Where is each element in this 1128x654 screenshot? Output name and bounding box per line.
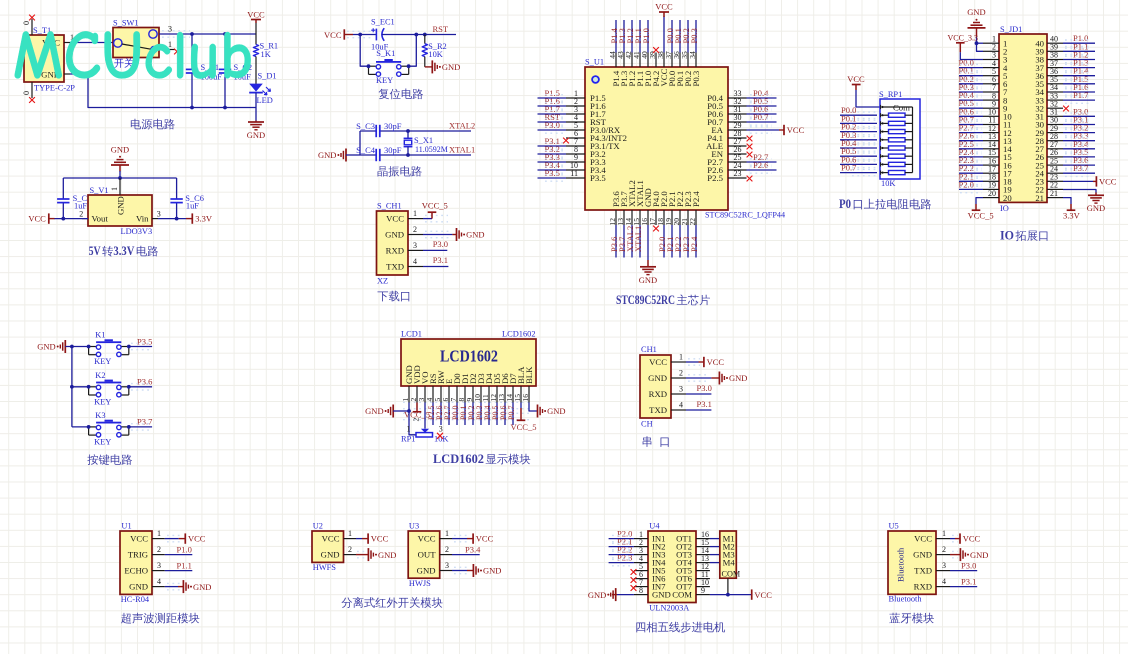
svg-text:2: 2 <box>413 225 417 234</box>
svg-text:P0: P0 <box>839 197 851 211</box>
capacitor S_C5 1uF <box>57 178 91 219</box>
pin 2 Vout <box>79 210 88 219</box>
svg-text:P2.4: P2.4 <box>689 236 699 252</box>
wire gnd to caps <box>346 154 360 156</box>
wire net P0.0 <box>959 67 983 69</box>
wire down to key left <box>360 35 368 67</box>
svg-text:VCC: VCC <box>963 534 981 544</box>
svg-text:3: 3 <box>168 25 172 34</box>
wire net P0.5 <box>959 107 983 109</box>
svg-text:VCC_5: VCC_5 <box>968 210 994 220</box>
svg-text:STC89C52RC: STC89C52RC <box>616 293 675 307</box>
svg-text:VCC: VCC <box>386 214 404 224</box>
pin 43 P1.3 top <box>616 20 629 87</box>
pin 2 TRIG of U1 <box>152 545 165 555</box>
pin 15 OT2 of U4 <box>696 538 710 547</box>
svg-text:LCD1: LCD1 <box>401 330 422 339</box>
wire K3 to net P3.7 <box>129 426 152 428</box>
pin 19 P2.1 bottom <box>664 191 677 257</box>
wire pin4 to GND <box>165 586 178 588</box>
svg-text:Vin: Vin <box>136 214 149 224</box>
pin 32 of S_JD1 <box>1047 99 1063 108</box>
wire net P0.4 <box>959 99 983 101</box>
pin 1 VCC of XZ <box>408 209 448 222</box>
power ground GND bottom of chip <box>639 260 657 285</box>
power port VCC_3.3 to pin 3 <box>948 34 978 53</box>
svg-text:U4: U4 <box>649 522 660 531</box>
svg-text:1: 1 <box>407 425 411 434</box>
pin 7 P3.1/TX left <box>538 136 621 151</box>
wire net P0.5 <box>496 403 498 426</box>
pin 27 ALE right <box>706 137 746 151</box>
wire net P1.3 <box>1063 67 1095 69</box>
svg-text:10K: 10K <box>434 435 448 444</box>
svg-text:S_C3: S_C3 <box>356 121 375 131</box>
svg-text:S_SW1: S_SW1 <box>113 19 139 28</box>
resistor S_R2 10K <box>422 35 447 67</box>
potentiometer RP1 10K <box>401 411 448 444</box>
wire net P0.6 to RP1 <box>840 163 877 165</box>
pin 5 P3.0/RX left <box>538 120 621 135</box>
pin 27 of S_JD1 <box>1047 140 1063 149</box>
wire VCC_3.3 to pin3 <box>960 52 983 59</box>
pin 4 GND of U1 <box>152 577 180 590</box>
capacitor S_C1 100uF <box>186 34 222 108</box>
connector M motor header <box>720 531 741 579</box>
signal ground GND of R2 <box>425 60 461 73</box>
pin 26 of S_JD1 <box>1047 148 1063 157</box>
resistor S_R1 1K <box>253 42 278 60</box>
pin 2 P1.6 left <box>538 96 607 111</box>
svg-text:VCC: VCC <box>324 30 342 40</box>
svg-text:VCC: VCC <box>1099 176 1117 186</box>
svg-text:1: 1 <box>942 529 946 538</box>
signal ground GND U2 <box>368 548 396 561</box>
pin 2 GND of U5 <box>936 545 958 558</box>
svg-text:P0.7: P0.7 <box>753 112 768 122</box>
pin 11 P3.5 left <box>538 168 606 183</box>
svg-text:VCC: VCC <box>371 534 389 544</box>
svg-text:STC89C52RC_LQFP44: STC89C52RC_LQFP44 <box>705 211 785 220</box>
wire net P0.2 to RP1 <box>840 131 877 133</box>
power port VCC_5 pin2 <box>404 403 430 420</box>
no-connect X on S_T1 top pin <box>29 15 35 21</box>
wire pin3 to GND <box>452 570 467 572</box>
pin 16 GND bottom <box>640 188 653 260</box>
signal ground GND keys <box>37 340 65 353</box>
pin 32 P0.5 right <box>707 96 776 111</box>
svg-text:2: 2 <box>411 418 420 422</box>
svg-text:GND: GND <box>193 582 211 592</box>
wire pin3 net P3.0 <box>686 393 711 395</box>
pin 24 P2.6 right <box>707 160 776 175</box>
svg-text:1: 1 <box>413 209 417 218</box>
pin 2 GND of XZ <box>408 225 450 238</box>
svg-text:LCD1602: LCD1602 <box>502 330 536 339</box>
wire EA to VCC <box>750 126 772 128</box>
junctions <box>406 129 410 133</box>
wire LED to ground <box>255 93 257 121</box>
pin 22 of S_JD1 <box>1047 181 1063 190</box>
svg-text:RXD: RXD <box>649 389 667 399</box>
pin 30 P0.7 right <box>707 112 776 127</box>
wire net P2.4 <box>959 156 983 158</box>
pin 3 of S_SW1 wire to VCC rail <box>162 30 190 32</box>
top rail wire <box>63 177 176 179</box>
pin 1 of S_JD1 <box>983 34 999 43</box>
caption 按键电路 <box>87 454 98 465</box>
pin 9 of S_JD1 <box>983 99 999 108</box>
svg-text:P3.7: P3.7 <box>137 417 152 427</box>
svg-text:VCC: VCC <box>847 74 865 84</box>
pin 1 VCC of U5 <box>936 529 958 542</box>
no-connect X pin 6 <box>563 138 569 144</box>
svg-text:VCC: VCC <box>707 357 725 367</box>
wire VCC to RP1 Com <box>856 90 880 107</box>
svg-text:KEY: KEY <box>94 357 111 366</box>
svg-text:10K: 10K <box>881 179 895 188</box>
wire to K1 <box>72 346 89 348</box>
svg-text:1: 1 <box>157 529 161 538</box>
pin 24 of S_JD1 <box>1047 164 1063 173</box>
caption 下载口 <box>377 291 388 301</box>
module U2 HWFS <box>312 522 344 573</box>
capacitor S_EC1 10uF polarized <box>371 18 395 52</box>
svg-text:30pF: 30pF <box>384 145 402 155</box>
connector CH1 CH <box>640 345 671 429</box>
svg-text:11.0592M: 11.0592M <box>415 145 448 154</box>
pin 3 TXD of U5 <box>936 561 950 571</box>
junction <box>358 33 362 37</box>
wire net P0.6 <box>504 403 506 426</box>
power port VCC U2 <box>368 533 389 543</box>
svg-text:1: 1 <box>679 353 683 362</box>
pin 7 IN7 of U4 <box>634 578 648 587</box>
svg-text:P1.0: P1.0 <box>641 28 651 43</box>
pin 39 P4.2 top <box>648 51 661 87</box>
svg-text:CH: CH <box>641 420 653 429</box>
svg-text:3: 3 <box>157 561 161 570</box>
caption 超声波测距模块 <box>121 613 131 624</box>
pin 35 of S_JD1 <box>1047 75 1063 84</box>
pin 23 P2.5 right <box>707 169 746 183</box>
svg-text:1: 1 <box>110 187 119 191</box>
svg-text:S_D1: S_D1 <box>258 72 277 81</box>
svg-text:VCC: VCC <box>322 534 340 544</box>
svg-text:P3.0: P3.0 <box>545 120 560 130</box>
wire to K2 <box>72 386 89 388</box>
wire net P2.6 <box>959 140 983 142</box>
pin 1 P1.5 left <box>538 88 606 103</box>
svg-text:VCC_5: VCC_5 <box>511 422 537 432</box>
svg-text:1K: 1K <box>261 50 271 59</box>
wire net P2.3 <box>609 562 634 564</box>
connector S_JD1 IO <box>999 25 1047 213</box>
svg-text:S_V1: S_V1 <box>90 186 109 195</box>
LED S_D1 <box>249 72 276 106</box>
pin 5 IN5 of U4 <box>634 562 648 571</box>
wire net P0.1 to RP1 <box>840 122 877 124</box>
pin 17 of S_JD1 <box>983 164 999 173</box>
pin 1 VCC of U2 <box>344 529 357 539</box>
svg-text:RST: RST <box>433 24 449 34</box>
crystal S_X1 11.0592M <box>404 131 448 155</box>
svg-text:GND: GND <box>111 144 129 154</box>
pin 8 of S_JD1 <box>983 91 999 100</box>
wire net P0.0 <box>456 403 458 426</box>
power port VCC U1 <box>179 533 206 543</box>
power port 3.3V bottom <box>1063 210 1081 220</box>
caption 电源电路 <box>131 119 141 130</box>
connector S_T1 TYPE-C-2P <box>24 26 75 93</box>
regulator S_V1 LDO3V3 <box>88 186 152 236</box>
pin 5 RW of LCD1 <box>433 386 442 403</box>
wire pin1 to VCC_5 <box>423 218 432 220</box>
pin 3 RXD of CH1 <box>671 385 686 395</box>
wire left vertical <box>359 131 361 155</box>
svg-text:VCC: VCC <box>914 534 932 544</box>
wire net P1.2 <box>1063 59 1095 61</box>
svg-text:VCC: VCC <box>247 10 265 20</box>
svg-text:GND: GND <box>318 150 336 160</box>
wire net P2.3 <box>959 164 983 166</box>
pin 10 OT7 of U4 <box>696 578 710 587</box>
wire gnd to pin1 <box>393 410 409 412</box>
pin 0 bottom of S_T1 <box>22 82 32 98</box>
svg-text:30pF: 30pF <box>384 121 402 131</box>
signal ground GND of XZ <box>457 228 485 241</box>
pin 7 D0 of LCD1 <box>449 386 458 403</box>
pin 13 OT4 of U4 <box>696 554 710 563</box>
wire XTAL2 <box>408 130 471 132</box>
wire Vin to 3.3V <box>158 218 186 220</box>
wire pin3 net P1.1 <box>165 570 193 572</box>
svg-text:LCD1602: LCD1602 <box>440 347 498 366</box>
svg-text:1: 1 <box>445 529 449 538</box>
svg-text:GND: GND <box>648 373 667 383</box>
pin 9 P3.3 left <box>538 152 606 167</box>
pin 8 GND of U4 <box>634 586 648 595</box>
svg-text:Vout: Vout <box>92 214 109 224</box>
svg-text:P1.7: P1.7 <box>1073 90 1088 100</box>
svg-text:RXD: RXD <box>386 245 404 255</box>
wire pin 21 to 3.3V <box>1063 198 1071 204</box>
wire COM bus to VCC <box>710 594 752 596</box>
svg-text:BLK: BLK <box>524 366 534 384</box>
svg-text:CH1: CH1 <box>641 345 657 354</box>
svg-text:23: 23 <box>734 169 742 178</box>
no-connect X pins 5 6 7 <box>631 569 637 575</box>
svg-text:ULN2003A: ULN2003A <box>649 604 689 613</box>
svg-text:5V: 5V <box>89 244 101 258</box>
pin 34 P0.3 top <box>688 20 701 87</box>
svg-text:P1.0: P1.0 <box>177 544 192 554</box>
push button K1 KEY <box>89 331 129 367</box>
svg-text:U2: U2 <box>313 522 323 531</box>
wire net P2.7 <box>959 132 983 134</box>
svg-text:S_X1: S_X1 <box>414 136 433 145</box>
wire net P0.4 to RP1 <box>840 147 877 149</box>
pin 23 of S_JD1 <box>1047 173 1063 182</box>
wire OT4 to motor <box>710 562 720 564</box>
svg-text:20: 20 <box>1003 193 1012 203</box>
pin 18 P2.0 bottom <box>656 191 669 258</box>
svg-text:HWJS: HWJS <box>409 579 431 588</box>
pin 4 of S_JD1 <box>983 59 999 68</box>
signal ground GND serial <box>719 372 747 385</box>
wire net P3.3 <box>1063 140 1095 142</box>
wire net P2.7 <box>448 403 450 426</box>
svg-text:XTAL1: XTAL1 <box>449 145 475 155</box>
wire pin16 BLK to GND <box>529 403 537 412</box>
svg-text:VCC: VCC <box>754 590 772 600</box>
wire pin1 to VCC <box>165 538 179 540</box>
wire pin1 GND down <box>408 403 410 412</box>
svg-text:IO: IO <box>1000 229 1014 243</box>
wire pin2 net P3.4 <box>452 554 480 556</box>
svg-text:GND: GND <box>483 566 501 576</box>
svg-text:RXD: RXD <box>914 582 932 592</box>
wire pin1 to VCC <box>452 538 467 540</box>
svg-text:VCC: VCC <box>787 125 805 135</box>
svg-text:P3.5: P3.5 <box>590 173 606 183</box>
wire net P3.0 <box>1063 115 1095 117</box>
svg-text:TXD: TXD <box>649 405 667 415</box>
wire net P3.2 <box>1063 132 1095 134</box>
svg-text:KEY: KEY <box>94 397 111 406</box>
switch S_SW1 <box>113 19 159 58</box>
svg-text:TXD: TXD <box>386 262 404 272</box>
pin 28 of S_JD1 <box>1047 132 1063 141</box>
pin 1 GND of S_V1 <box>110 178 120 195</box>
wire net P2.6 <box>440 403 442 426</box>
wire OT3 to motor <box>710 554 720 556</box>
pin 12 OT5 of U4 <box>696 562 710 571</box>
svg-text:HC-R04: HC-R04 <box>121 595 150 604</box>
wire pin1 to VCC <box>950 538 955 540</box>
no-connect X pins 28 27 26 23 <box>747 136 753 142</box>
pin 2 VDD of LCD1 <box>409 386 418 403</box>
pin 1 IN1 of U4 <box>634 530 648 539</box>
wire net P3.4 <box>1063 148 1095 150</box>
wire S_T1 pin1 to switch <box>70 42 113 44</box>
pin 20 of S_JD1 <box>983 189 999 198</box>
svg-text:GND: GND <box>37 342 55 352</box>
svg-text:0: 0 <box>22 91 31 95</box>
svg-text:22: 22 <box>688 218 697 226</box>
wire down to key right <box>409 35 417 67</box>
wire net P0.7 to RP1 <box>840 172 877 174</box>
wire net P0.5 to RP1 <box>840 155 877 157</box>
svg-text:GND: GND <box>385 230 404 240</box>
pin 14 of S_JD1 <box>983 140 999 149</box>
pin 1 of S_SW1 stub <box>159 40 175 50</box>
svg-text:LCD1602: LCD1602 <box>433 452 484 466</box>
wire pin1 to VCC <box>686 361 699 363</box>
wire net P2.5 <box>432 403 434 426</box>
wire net P0.7 <box>512 403 514 426</box>
wire gnd bus <box>65 347 72 427</box>
svg-text:GND: GND <box>588 590 606 600</box>
pin 16 of S_JD1 <box>983 156 999 165</box>
svg-text:M4: M4 <box>723 558 736 568</box>
svg-text:4: 4 <box>413 257 417 266</box>
wire net P3.5 <box>1063 156 1095 158</box>
label 开关 for S_SW1 <box>114 59 123 68</box>
svg-text:2: 2 <box>679 369 683 378</box>
pin 33 of S_JD1 <box>1047 91 1063 100</box>
ic LCD1 LCD1602 display <box>401 330 536 387</box>
pin 44 P1.4 top <box>608 20 621 87</box>
wire net P0.1 <box>959 75 983 77</box>
pin 39 of S_JD1 <box>1047 43 1063 52</box>
wire net P1.4 <box>1063 75 1095 77</box>
wire net P0.6 <box>959 115 983 117</box>
pin 42 P1.2 top <box>624 20 637 87</box>
svg-text:3.3V: 3.3V <box>195 214 213 224</box>
wire net P1.5 <box>1063 83 1095 85</box>
pin 9 D2 of LCD1 <box>465 386 474 403</box>
svg-text:11: 11 <box>570 169 578 178</box>
pin 29 EA right <box>711 121 746 135</box>
pin 38 VCC top <box>656 16 669 87</box>
wire pin3 net P3.0 <box>423 249 447 251</box>
svg-text:VCC: VCC <box>28 214 46 224</box>
pin 30 of S_JD1 <box>1047 116 1063 125</box>
pin 12 D5 of LCD1 <box>489 386 498 403</box>
no-connect X pin 17 <box>653 226 659 232</box>
pin 11 OT6 of U4 <box>696 570 710 579</box>
pin 16 OT1 of U4 <box>696 530 710 539</box>
svg-text:S_C4: S_C4 <box>356 145 376 155</box>
svg-text:P2.0: P2.0 <box>959 179 974 189</box>
svg-text:U5: U5 <box>889 522 899 531</box>
svg-text:3: 3 <box>942 561 946 570</box>
svg-text:2: 2 <box>79 210 83 219</box>
pin 33 P0.4 right <box>707 88 776 103</box>
pin 12 of S_JD1 <box>983 124 999 133</box>
wire XTAL1 <box>408 154 471 156</box>
junction dots power rail <box>190 32 194 36</box>
wire net P3.1 <box>1063 124 1095 126</box>
svg-text:1: 1 <box>168 40 172 49</box>
svg-text:1uF: 1uF <box>186 202 199 211</box>
svg-text:K1: K1 <box>95 331 105 340</box>
power port VCC U5 <box>960 533 981 543</box>
pin 13 P3.7 bottom <box>616 191 629 258</box>
svg-text:VCC: VCC <box>188 534 206 544</box>
pin 3 of S_JD1 <box>983 51 999 60</box>
svg-text:P3.5: P3.5 <box>545 168 560 178</box>
svg-text:3: 3 <box>445 561 449 570</box>
svg-text:Bluetooth: Bluetooth <box>896 547 906 582</box>
svg-text:P3.7: P3.7 <box>1073 163 1088 173</box>
svg-text:COM: COM <box>722 570 741 579</box>
svg-text:S_K1: S_K1 <box>376 49 395 58</box>
wire net P3.7 <box>1063 172 1095 174</box>
signal ground GND right of LCD <box>538 405 566 418</box>
svg-text:P3.0: P3.0 <box>433 239 448 249</box>
capacitor S_C6 1uF <box>170 178 204 219</box>
svg-text:OUT: OUT <box>418 550 437 560</box>
no-connect X pin 32 <box>1063 106 1069 112</box>
svg-text:Bluetooth: Bluetooth <box>889 595 923 604</box>
pin 9 COM of U4 <box>696 586 710 595</box>
pin 1 VCC of S_T1 <box>64 33 74 43</box>
svg-text:2: 2 <box>445 545 449 554</box>
svg-text:21: 21 <box>1050 189 1058 198</box>
svg-text:S_CH1: S_CH1 <box>377 202 402 211</box>
